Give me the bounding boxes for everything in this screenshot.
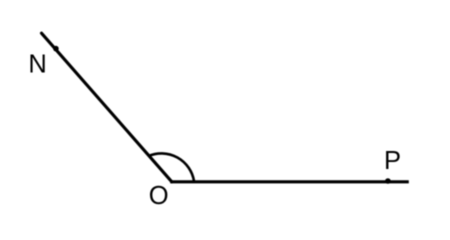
ray OP (horizontal line from vertex O right through point P) [170, 180, 409, 183]
svg-text:P: P [384, 147, 401, 175]
point P dot [385, 178, 391, 184]
svg-text:O: O [149, 182, 169, 210]
ray ON (diagonal line from vertex O up-left through point N) [42, 33, 172, 182]
point N dot [53, 46, 59, 52]
svg-text:N: N [28, 51, 46, 79]
angle arc marking angle NOP at vertex O [149, 153, 194, 181]
